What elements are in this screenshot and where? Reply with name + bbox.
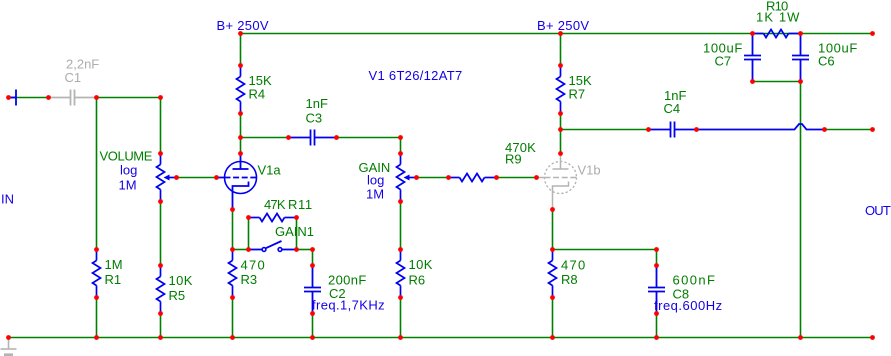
svg-text:R4: R4	[249, 87, 266, 102]
svg-text:R8: R8	[561, 272, 578, 287]
svg-text:B+ 250V: B+ 250V	[217, 18, 269, 33]
svg-text:1K 1W: 1K 1W	[756, 10, 801, 25]
svg-text:OUT: OUT	[865, 203, 891, 218]
svg-text:C3: C3	[306, 111, 323, 126]
svg-text:log: log	[120, 163, 137, 178]
svg-text:R1: R1	[105, 272, 122, 287]
svg-text:1nF: 1nF	[306, 96, 328, 111]
svg-text:V1b: V1b	[578, 162, 601, 177]
svg-text:R7: R7	[569, 87, 586, 102]
svg-text:freq.1,7KHz: freq.1,7KHz	[312, 298, 385, 313]
svg-text:R6: R6	[409, 272, 426, 287]
svg-text:R11: R11	[288, 197, 313, 212]
svg-text:C1: C1	[65, 70, 82, 85]
svg-text:V1a: V1a	[258, 162, 282, 177]
svg-text:10K: 10K	[169, 273, 193, 288]
svg-text:C7: C7	[715, 54, 732, 69]
svg-text:C6: C6	[818, 54, 835, 69]
svg-text:600nF: 600nF	[673, 272, 717, 287]
svg-text:47K: 47K	[264, 197, 286, 212]
svg-text:470: 470	[561, 258, 587, 273]
svg-text:V1 6T26/12AT7: V1 6T26/12AT7	[369, 68, 463, 83]
svg-text:IN: IN	[1, 191, 14, 206]
svg-text:VOLUME: VOLUME	[100, 149, 153, 164]
svg-text:10K: 10K	[409, 257, 433, 272]
svg-text:B+ 250V: B+ 250V	[537, 18, 589, 33]
svg-text:1M: 1M	[105, 257, 123, 272]
svg-text:log: log	[367, 173, 384, 188]
svg-text:R5: R5	[169, 288, 186, 303]
svg-text:1M: 1M	[119, 178, 137, 193]
svg-text:freq.600Hz: freq.600Hz	[654, 298, 723, 313]
svg-text:C4: C4	[664, 101, 681, 116]
svg-text:R9: R9	[505, 152, 522, 167]
svg-text:1M: 1M	[366, 186, 384, 201]
svg-text:R3: R3	[241, 272, 258, 287]
svg-text:GAIN1: GAIN1	[275, 224, 314, 239]
svg-text:2,2nF: 2,2nF	[66, 56, 99, 71]
svg-text:470: 470	[241, 258, 267, 273]
